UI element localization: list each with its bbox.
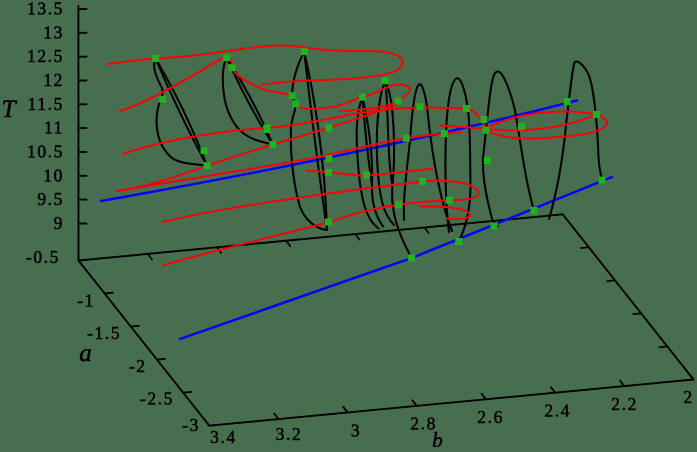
arc 7 periodic orbit	[445, 78, 470, 241]
marker: hook upper marker	[419, 178, 426, 185]
marker: lower blue foot d	[599, 177, 606, 184]
marker: loop4 top	[359, 94, 366, 101]
marker: loop1 left	[159, 96, 166, 103]
svg-text:9: 9	[54, 213, 64, 233]
marker: upper blue end	[564, 98, 571, 105]
arc 8 periodic orbit	[483, 72, 534, 226]
b axis ticks	[205, 420, 209, 426]
red branch 4 flat	[117, 132, 461, 191]
T axis (vertical border)	[77, 6, 79, 261]
marker: red5 marker	[325, 124, 332, 131]
red branch 8 short	[307, 169, 432, 176]
marker: loop1 top	[152, 55, 159, 62]
loop 1 left bulge	[154, 59, 207, 166]
svg-text:3.2: 3.2	[276, 424, 303, 444]
svg-text:3.4: 3.4	[210, 427, 237, 447]
red tongue right of lens	[486, 114, 607, 138]
loop 3 left bulge	[291, 52, 327, 230]
marker: loop3 left b	[292, 100, 299, 107]
svg-text:3: 3	[351, 421, 361, 441]
marker: loop3 left a	[289, 92, 296, 99]
arc 9 periodic orbit	[549, 62, 602, 219]
marker: lower blue foot c	[531, 207, 538, 214]
marker: loop2 strand low	[263, 126, 270, 133]
svg-text:10: 10	[43, 165, 64, 185]
svg-text:9.5: 9.5	[37, 189, 64, 209]
svg-text:13.5: 13.5	[27, 0, 64, 19]
marker: loop2 top	[223, 54, 230, 61]
svg-text:10.5: 10.5	[27, 142, 64, 162]
svg-text:-3: -3	[182, 415, 200, 435]
marker: loop5 top	[382, 77, 389, 84]
marker: tongue2 return	[395, 98, 402, 105]
a axis ticks	[79, 259, 87, 262]
b axis (front border)	[209, 380, 693, 426]
red fold branch (upper+return through loop bottoms)	[163, 181, 478, 266]
lower blue equilibrium branch	[180, 177, 612, 339]
marker: arc8 left leg marker	[484, 157, 491, 164]
svg-text:-1: -1	[77, 290, 95, 310]
base back border	[79, 214, 563, 260]
svg-text:12: 12	[43, 70, 64, 90]
red branch 5 through loop bottoms	[117, 105, 398, 192]
svg-text:-2.5: -2.5	[140, 389, 174, 409]
loop 4 left bulge	[357, 97, 379, 228]
loop 3 doubled strand	[304, 52, 327, 230]
upper blue equilibrium branch	[101, 101, 577, 202]
marker: loop2 strand top	[229, 64, 236, 71]
svg-text:-2: -2	[129, 356, 147, 376]
red branch 1 with right fold tongue	[108, 45, 403, 84]
marker: lens left vertex	[482, 127, 489, 134]
marker: lens right vertex	[593, 111, 600, 118]
svg-text:13: 13	[43, 22, 64, 42]
marker: red crossing arc6 leg	[416, 103, 423, 110]
loop 5 doubled strand	[385, 81, 412, 258]
loop 2 doubled strand	[227, 58, 273, 145]
marker: loop4 mid	[363, 172, 370, 179]
red branch 3	[123, 108, 486, 155]
right border mirror ticks	[555, 213, 563, 216]
marker: loop1 strand	[201, 147, 208, 154]
marker: loop3 top	[301, 48, 308, 55]
marker: red3 marker a	[264, 124, 271, 131]
svg-text:2.6: 2.6	[477, 407, 504, 427]
loop 5 left bulge	[377, 81, 394, 225]
marker: hook end marker	[395, 201, 402, 208]
red nested fold B	[420, 206, 470, 219]
marker: upper blue marker b	[441, 130, 448, 137]
marker: loop3 strand a	[326, 155, 333, 162]
arc 6 periodic orbit	[404, 84, 452, 231]
svg-text:11.5: 11.5	[28, 94, 64, 114]
svg-text:11: 11	[44, 118, 64, 138]
svg-text:12.5: 12.5	[27, 46, 64, 66]
red lens lower arc	[486, 114, 597, 130]
marker: loop3 bottom	[325, 219, 332, 226]
svg-text:-1.5: -1.5	[87, 323, 121, 343]
back border mirror ticks	[79, 261, 83, 267]
svg-text:T: T	[2, 96, 18, 123]
marker: loop2 bottom	[269, 141, 276, 148]
marker: lower blue foot b	[455, 238, 462, 245]
svg-text:-0.5: -0.5	[26, 247, 60, 267]
marker: loop1 bottom	[204, 162, 211, 169]
red lens upper arc	[486, 112, 597, 129]
base right border	[563, 214, 694, 379]
svg-text:2.4: 2.4	[544, 401, 571, 421]
T axis ticks	[78, 8, 86, 10]
marker: hook lower marker	[446, 197, 453, 204]
svg-text:2: 2	[683, 387, 693, 407]
a axis (front-left border)	[79, 261, 210, 426]
loop 4 doubled strand	[363, 97, 384, 226]
svg-text:a: a	[79, 340, 92, 367]
marker: upper blue marker a	[403, 135, 410, 142]
loop 1 doubled strand	[156, 59, 207, 166]
svg-text:2.2: 2.2	[611, 394, 638, 414]
marker: lens lower marker	[518, 123, 525, 130]
loop 2 left bulge	[223, 58, 273, 145]
red feed to lens	[440, 126, 486, 129]
red branch 2 arch with second tongue	[120, 58, 410, 111]
marker: lower blue foot a	[408, 255, 415, 262]
marker: upper blue marker c	[481, 116, 488, 123]
marker: lower blue foot extra	[491, 223, 498, 230]
marker: red3 end marker	[463, 105, 470, 112]
marker: loop3 strand b	[325, 169, 332, 176]
svg-text:b: b	[432, 428, 443, 447]
